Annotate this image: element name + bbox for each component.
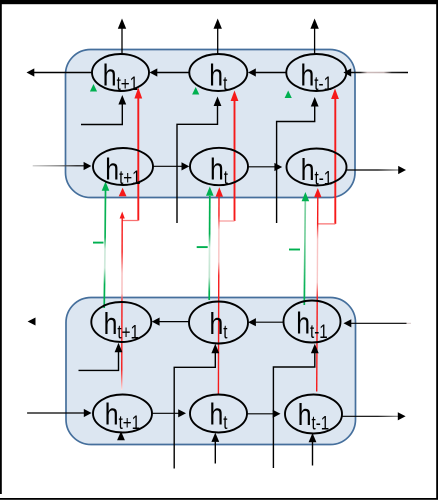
row4 arrow ht to ht-1	[247, 410, 281, 418]
ellipse row3 ht	[189, 302, 248, 344]
row1 arrow ht-1 to ht	[248, 68, 286, 76]
top layer box	[66, 50, 356, 198]
green minus label col t+1	[93, 242, 104, 244]
ellipse row3 ht+1	[91, 302, 151, 342]
output arrow up col t-1	[310, 19, 318, 55]
green tick under row1 ht	[192, 87, 199, 95]
green minus label col t	[197, 246, 208, 248]
row4 input arrow ht-1	[309, 433, 317, 466]
red arrow col t into row1	[219, 91, 239, 222]
row3 elbow into ht+1	[79, 343, 123, 371]
red arrow col t-1 into row2	[314, 188, 321, 392]
green tick under row1 ht-1	[285, 91, 292, 99]
row4 arrow ht+1 to ht	[152, 409, 186, 417]
ellipse row2 ht	[190, 148, 248, 185]
green arrow col t+1 row3 to row2	[102, 182, 110, 309]
ellipse row1 ht+1	[92, 54, 149, 91]
green tick under row1 ht+1	[90, 84, 97, 92]
output arrow up col t+1	[118, 19, 126, 55]
row1 arrow ht to ht+1	[150, 68, 190, 76]
green arrow col t row3 to row2	[206, 187, 214, 301]
ellipse row1 ht-1	[286, 54, 346, 91]
bottom layer box	[66, 298, 356, 445]
row2 exit arrow right	[347, 166, 407, 174]
row1 elbow into ht-1	[277, 97, 319, 223]
frame top border	[0, 0, 438, 4]
row2 entry arrow from left	[33, 162, 92, 170]
ellipse row4 ht	[190, 395, 247, 433]
row3 arrow ht to ht+1	[152, 318, 189, 326]
frame right border	[436, 0, 438, 499]
row3 entry arrow from right	[344, 319, 412, 327]
frame bottom border	[0, 498, 438, 500]
row3 elbow into ht-1	[273, 344, 318, 468]
row2 arrow ht to ht-1	[248, 163, 282, 171]
frame left border	[0, 0, 2, 494]
ellipse row2 ht-1	[287, 149, 347, 186]
ellipse row4 ht-1	[285, 395, 342, 434]
row3 lone arrowhead left	[28, 318, 36, 326]
row1 entry arrow from right	[343, 68, 408, 76]
row1 elbow into ht+1	[81, 95, 126, 125]
row3 elbow into ht	[174, 344, 219, 469]
row4 input arrow ht	[211, 433, 219, 464]
row4 exit arrow right	[342, 412, 406, 420]
red line col t+1 row4 to jog	[120, 212, 125, 391]
green minus label col t-1	[289, 249, 300, 251]
row1 exit arrow left	[27, 68, 93, 76]
red arrow col t+1 into row1	[122, 88, 142, 221]
ellipse row2 ht+1	[93, 148, 153, 185]
row4 input triangle ht+1	[117, 431, 125, 440]
row4 entry arrow from left	[27, 409, 92, 417]
red triangle under row2 ht+1	[119, 188, 127, 197]
ellipse row3 ht-1	[284, 301, 341, 343]
green arrow col t-1 row3 to row2	[302, 192, 310, 305]
red arrow col t into row2	[216, 187, 223, 395]
red arrow col t-1 into row1	[318, 89, 339, 224]
ellipse row1 ht	[189, 54, 247, 91]
output arrow up col t	[214, 19, 222, 55]
row2 arrow ht+1 to ht	[153, 162, 189, 170]
row3 arrow ht-1 to ht	[248, 318, 283, 326]
row1 elbow into ht	[177, 97, 221, 224]
ellipse row4 ht+1	[93, 395, 152, 433]
